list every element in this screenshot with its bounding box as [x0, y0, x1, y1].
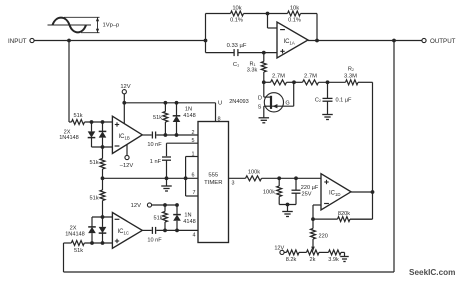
svg-text:10k: 10k [232, 6, 241, 12]
diode pair label lower [65, 225, 85, 237]
capacitor 10nF IC1B [147, 132, 162, 149]
node plus-rail-a [90, 120, 94, 124]
node minus-rail [101, 145, 105, 149]
resistor 8.2k [286, 250, 299, 263]
wire IC1C minus rail [92, 216, 112, 218]
transistor Q1 2N4093 [229, 82, 294, 117]
svg-text:51k: 51k [74, 248, 83, 254]
node R1 top [262, 51, 266, 55]
op-amp IC1C [112, 213, 142, 249]
svg-text:IC1D: IC1D [329, 190, 341, 197]
node pin2-b [175, 133, 179, 137]
diode D2 up [99, 122, 107, 147]
wire IC1C output [142, 229, 151, 231]
node IC1C plus-a [90, 241, 94, 245]
wire IC1B output [142, 134, 151, 136]
node pin4-b [175, 229, 179, 233]
svg-text:220 µF: 220 µF [301, 185, 319, 191]
svg-text:2.7M: 2.7M [304, 74, 317, 80]
resistor 820k [313, 211, 373, 222]
svg-text:2k: 2k [310, 257, 316, 263]
node rail-a [262, 80, 266, 84]
wire 10k rail segs [206, 14, 318, 41]
ground jfet source [259, 118, 270, 123]
resistor 10k second [288, 6, 301, 24]
svg-text:INPUT: INPUT [8, 38, 27, 45]
ground pin6 [161, 178, 172, 191]
node 12v lower b [175, 203, 179, 207]
IC 555 timer [198, 122, 229, 243]
wire 12V stub IC1B [123, 94, 125, 124]
svg-text:D: D [258, 95, 262, 101]
wire input rail [34, 40, 205, 42]
pin 1 wire [186, 152, 198, 179]
svg-text:1 nF: 1 nF [150, 159, 162, 165]
svg-text:3.3k: 3.3k [247, 68, 258, 74]
diode D1 down [88, 122, 96, 147]
node 12V rail [122, 101, 126, 105]
op-amp IC1B [112, 116, 142, 153]
node rail-c [326, 80, 330, 84]
pin 8 label [218, 116, 221, 122]
node IC1D out [371, 190, 375, 194]
node d-a [277, 176, 281, 180]
resistor 2.7M first [271, 74, 287, 85]
wire pin3 to IC1D [262, 177, 322, 179]
node input-cap tee [204, 39, 208, 43]
resistor 3.9k [328, 250, 341, 263]
capacitor 10nF IC1C [147, 227, 162, 244]
capacitor C1 0.33uF [227, 43, 247, 68]
svg-text:220: 220 [319, 233, 328, 239]
svg-text:U: U [218, 101, 222, 107]
resistor 220 wiper [311, 219, 328, 251]
svg-text:6: 6 [192, 173, 195, 179]
wire to pin4 [156, 229, 198, 231]
node shunt gnd [286, 203, 290, 207]
svg-text:0.1%: 0.1% [230, 18, 243, 24]
wire IC1D minus [313, 205, 321, 219]
svg-text:TIMER: TIMER [204, 180, 222, 186]
svg-text:7: 7 [193, 190, 196, 196]
svg-text:2: 2 [192, 130, 195, 136]
node minus feedback [311, 217, 315, 221]
resistor 51k feedback [64, 241, 113, 254]
pin 6 rail [103, 173, 199, 179]
node pin6 tee [184, 176, 188, 180]
resistor 51k chain2 [89, 190, 105, 217]
svg-text:1N: 1N [184, 213, 191, 219]
svg-text:51k: 51k [89, 196, 98, 202]
resistor 51k pullup [153, 103, 168, 135]
svg-text:IC1B: IC1B [119, 134, 130, 141]
svg-text:4148: 4148 [183, 113, 195, 119]
wire IC1A inverting input [268, 14, 278, 29]
svg-text:3: 3 [232, 180, 235, 186]
ground 3.9k [340, 252, 349, 261]
node rail-b [292, 80, 296, 84]
resistor 10k first [230, 6, 243, 24]
pin 7 wire [186, 178, 198, 196]
resistor 51k chain1 [89, 147, 105, 190]
svg-text:0.33 µF: 0.33 µF [227, 43, 247, 49]
measure lines 1Vp-p [64, 17, 119, 32]
wire R2 to IC1D output [350, 82, 373, 219]
supply +12V upper [120, 84, 130, 94]
svg-text:5: 5 [192, 138, 195, 144]
svg-text:1: 1 [192, 152, 195, 158]
svg-text:820k: 820k [338, 211, 350, 217]
node pin4-a [163, 229, 167, 233]
node pin2-a [164, 133, 168, 137]
wire to pin2 [156, 134, 198, 136]
svg-text:R₂: R₂ [348, 67, 354, 73]
svg-text:555: 555 [208, 173, 219, 179]
node 12v lower a [163, 203, 167, 207]
pin 5 wire [167, 138, 199, 156]
svg-text:3.3M: 3.3M [344, 74, 357, 80]
diode pair label upper [59, 130, 79, 142]
svg-text:1N: 1N [185, 107, 192, 113]
wire feedback loop [64, 41, 395, 273]
resistor 51k lower [153, 205, 167, 230]
diode 1N4148 upper [173, 103, 196, 135]
svg-text:2X: 2X [70, 225, 77, 231]
svg-text:2N4093: 2N4093 [229, 99, 249, 105]
resistor 100k shunt [263, 178, 282, 204]
wire 2.7M rail [264, 81, 373, 83]
svg-text:1Vp–p: 1Vp–p [103, 23, 120, 29]
node d-b [294, 176, 298, 180]
diode D4 down [99, 217, 107, 243]
svg-text:10k: 10k [290, 6, 299, 12]
svg-text:0.1 µF: 0.1 µF [336, 98, 353, 104]
svg-text:SeekIC.com: SeekIC.com [409, 268, 455, 277]
node IC1C minus [101, 215, 105, 219]
svg-text:C₁: C₁ [233, 62, 239, 68]
node pin6 gnd [165, 176, 169, 180]
supply +12V bottom [274, 245, 284, 254]
supply +12V lower [131, 203, 152, 209]
diode D3 up [88, 217, 96, 243]
wire input to IC1B [68, 41, 70, 123]
output terminal [422, 38, 456, 45]
svg-text:100k: 100k [263, 190, 275, 196]
wire IC1D output [351, 191, 373, 193]
watermark SeekIC.com [409, 268, 455, 277]
svg-text:3.9k: 3.9k [328, 257, 339, 263]
net label U [218, 101, 222, 107]
svg-text:G: G [285, 101, 289, 107]
capacitor C2 0.1uF [315, 82, 352, 114]
resistor R2 3.3M [344, 67, 358, 85]
svg-text:OUTPUT: OUTPUT [430, 38, 456, 45]
wire chain [284, 251, 344, 253]
node plus-rail-b [101, 120, 105, 124]
svg-text:IC1A: IC1A [284, 39, 295, 46]
svg-text:51k: 51k [153, 115, 162, 121]
svg-text:10 nF: 10 nF [147, 142, 162, 148]
ground C2 [322, 115, 333, 120]
pin 3 wire [229, 178, 246, 186]
svg-text:4148: 4148 [183, 219, 195, 225]
resistor R1 3.3k [247, 53, 267, 83]
wire 12V lower [152, 204, 177, 206]
svg-text:–12V: –12V [120, 163, 134, 169]
resistor 2.7M second [303, 74, 319, 85]
input terminal [8, 38, 34, 45]
wire top-rail vertical [205, 14, 207, 53]
svg-text:12V: 12V [120, 84, 130, 90]
svg-text:12V: 12V [131, 203, 141, 209]
svg-text:1N4148: 1N4148 [65, 232, 85, 238]
wire IC1A noninverting rail [206, 52, 278, 54]
sine wave symbol [48, 18, 92, 33]
node input junction [67, 39, 71, 43]
svg-text:C₂: C₂ [315, 98, 321, 104]
node output junction [392, 39, 396, 43]
op-amp IC1D [321, 174, 351, 210]
svg-text:4: 4 [193, 232, 196, 238]
svg-text:25V: 25V [302, 191, 312, 197]
wire 12V rail to pin8 [124, 103, 215, 122]
supply -12V IC1B [120, 144, 134, 169]
resistor 51k input IC1B [69, 113, 112, 124]
node 51k top [164, 101, 168, 105]
node 10k junction [266, 12, 270, 16]
svg-text:0.1%: 0.1% [288, 18, 301, 24]
wire shunt bottom [279, 204, 296, 206]
node diode top [175, 101, 179, 105]
wire IC1B minus rail [92, 146, 113, 148]
svg-text:1N4148: 1N4148 [59, 135, 79, 141]
pin 2 label [192, 130, 195, 136]
svg-text:12V: 12V [274, 245, 284, 251]
resistor 100k series [246, 170, 262, 181]
svg-text:IC1C: IC1C [118, 229, 130, 236]
svg-text:51k: 51k [89, 160, 98, 166]
svg-text:10 nF: 10 nF [147, 238, 162, 244]
resistor 2k trim [307, 250, 320, 263]
node chain mid [101, 176, 105, 180]
ground shunt [282, 205, 293, 217]
wire IC1A output [308, 40, 422, 42]
capacitor 1nF [150, 157, 171, 178]
node IC1A feedback [315, 39, 319, 43]
pin 4 label [193, 232, 196, 238]
capacitor 220uF [292, 178, 319, 204]
node IC1C plus-b [101, 241, 105, 245]
svg-text:S: S [258, 105, 262, 111]
svg-text:8.2k: 8.2k [286, 257, 297, 263]
op-amp IC1A [277, 22, 308, 58]
svg-text:100k: 100k [248, 170, 260, 176]
svg-text:51k: 51k [73, 113, 82, 119]
svg-text:2.7M: 2.7M [272, 74, 285, 80]
diode 1N4148 lower [173, 205, 196, 230]
svg-text:51k: 51k [153, 216, 162, 222]
